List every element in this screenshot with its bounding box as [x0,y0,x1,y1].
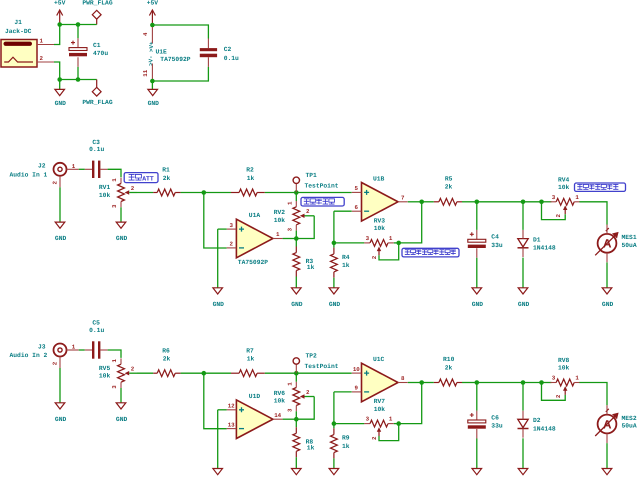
svg-text:2: 2 [555,213,562,217]
op-amp U1D [227,393,283,439]
svg-text:GND: GND [148,100,160,107]
svg-text:RV1: RV1 [99,184,111,191]
connector J1 Jack-DC [1,19,54,67]
ground (D1) [518,288,528,294]
wire D2 branch [522,383,524,411]
wire R2 to TP1 node [265,192,297,194]
potentiometer RV2 10k [274,201,315,231]
wire RV7 wiper return [371,424,399,441]
svg-text:U1C: U1C [373,356,385,363]
junction GND/C1 [76,77,81,82]
svg-text:>V+: >V+ [148,41,155,52]
ground (R8) [292,469,302,475]
svg-text:TestPoint: TestPoint [305,182,339,189]
resistor R8 1k [293,419,315,457]
svg-text:1N4148: 1N4148 [533,425,556,432]
svg-text:1: 1 [389,235,393,242]
svg-text:10k: 10k [99,192,111,199]
wire TP1 node to RV2 pin1 [295,193,297,202]
svg-text:10k: 10k [374,225,386,232]
wire R4 to ground [333,278,335,288]
svg-text:33u: 33u [491,423,503,430]
svg-text:PWR_FLAG: PWR_FLAG [82,99,112,106]
wire U1D output to feedback node [283,418,297,420]
svg-text:2k: 2k [163,175,171,182]
wire U1A output to feedback node [283,238,297,240]
diode D1 1N4148 [518,230,556,257]
wire R5 to meter line [462,201,477,203]
ground (U1A) [213,288,223,294]
potentiometer RV7 10k [364,398,394,432]
svg-text:12: 12 [228,403,235,410]
wire feedback node to RV6 wiper return [296,397,314,420]
svg-text:1: 1 [40,38,44,45]
junction RV8 wiper node [539,380,544,385]
svg-text:U1E: U1E [156,49,168,56]
svg-text:RV8: RV8 [558,357,570,364]
svg-text:0.1u: 0.1u [89,146,104,153]
junction D2 node [521,380,526,385]
svg-text:TA75092P: TA75092P [160,56,190,63]
wire C4 to ground [476,248,478,287]
svg-text:TP2: TP2 [306,353,318,360]
svg-text:11: 11 [142,69,149,76]
resistor R6 2k [153,347,180,376]
wire RV6 pin3 to feedback node [295,411,297,419]
svg-text:9: 9 [355,385,359,392]
svg-text:A: A [603,417,612,431]
svg-text:2: 2 [371,436,378,440]
wire RV7 pin1 to clip level node [394,423,399,425]
resistor R1 2k [153,167,180,196]
resistor R4 1k [331,243,350,278]
junction clip level node [396,421,401,426]
wire RV5 pin3 to ground [120,388,122,403]
wire RV8 wiper return [542,383,566,401]
junction TP1 node [294,190,299,195]
connector J2 Audio In 1 [10,163,79,188]
ground (J1) [55,80,67,108]
svg-text:3: 3 [111,385,118,389]
svg-text:C5: C5 [92,320,100,327]
wire U1B output [408,201,422,203]
resistor R3 1k [293,239,315,277]
svg-text:10k: 10k [99,373,111,380]
svg-text:50uA: 50uA [622,242,637,249]
svg-text:J3: J3 [38,343,46,350]
svg-text:2: 2 [229,241,233,248]
wire to RV8 [542,382,552,384]
svg-text:470u: 470u [93,50,108,57]
wire RV4 pin1 to MES1 [579,202,607,225]
ground (RV1) [116,222,126,228]
capacitor C6 33u branch [476,383,478,421]
svg-text:U1B: U1B [373,175,385,182]
wire inverting node to RV3 pin3 [334,242,364,244]
svg-text:GND: GND [291,301,303,308]
wire node down to U1D inverting input [204,373,227,429]
svg-text:14: 14 [274,412,281,419]
potentiometer RV1 10k [99,178,137,208]
svg-text:1k: 1k [247,175,255,182]
label box 信号ATT (signal attenuator) [124,173,158,183]
svg-text:2: 2 [131,185,135,192]
power symbol +5V (J1 branch) [54,0,66,24]
svg-text:GND: GND [213,301,225,308]
wire output node down to clip level pot [399,383,422,424]
power flag PWR_FLAG (top) [82,0,112,24]
svg-text:5: 5 [355,185,359,192]
svg-text:3: 3 [552,194,556,201]
svg-text:+5V: +5V [54,0,66,7]
wire U1B inverting input loop [334,210,352,212]
svg-text:1: 1 [389,416,393,423]
svg-text:2k: 2k [445,364,453,371]
diode D2 1N4148 [518,411,556,438]
wire D1 to ground [522,258,524,288]
svg-text:GND: GND [55,235,67,242]
potentiometer RV3 10k [364,218,394,252]
potentiometer RV8 10k [550,357,580,391]
test point TP1 [293,172,339,193]
wire R6 to node [181,372,204,374]
svg-text:GND: GND [55,100,67,107]
svg-text:8: 8 [401,375,405,382]
wire U1A non-inverting input to ground [218,228,227,230]
wire J2 pin2 to ground [59,187,61,222]
svg-text:2: 2 [371,255,378,259]
wire RV2 pin3 to feedback node [295,231,297,239]
svg-text:TestPoint: TestPoint [305,363,339,370]
wire output node to R5 [422,201,434,203]
wire RV5 wiper to R6 [137,372,153,374]
op-amp U1C [352,356,408,402]
svg-text:RV7: RV7 [374,398,386,405]
svg-text:3: 3 [229,222,233,229]
svg-text:0.1u: 0.1u [89,327,104,334]
svg-text:3: 3 [286,227,293,231]
wire feedback node to RV2 wiper return [296,216,314,239]
svg-text:R1: R1 [162,167,170,174]
label box メータ電流調整 (meter current adjust) [575,183,626,191]
svg-text:U1A: U1A [249,212,261,219]
wire U1D non-inverting input to ground [218,409,227,411]
wire +5V rail to C2 [152,25,208,39]
ground (R4) [329,288,339,294]
ground (U1D) [213,469,223,475]
ground (MES1) [602,288,612,294]
junction GND/U1E [150,79,155,84]
svg-text:13: 13 [228,421,235,428]
svg-text:J1: J1 [14,19,22,26]
junction +5V/J1 [57,22,62,27]
ground (J2) [55,222,65,228]
svg-text:10k: 10k [558,184,570,191]
svg-text:1N4148: 1N4148 [533,245,556,252]
wire to RV4 [542,201,552,203]
svg-text:GND: GND [329,301,341,308]
junction TP2 node [294,371,299,376]
svg-text:Audio In 2: Audio In 2 [10,352,48,359]
wire J1 pin1 to +5V rail [54,25,60,45]
svg-text:2: 2 [52,181,59,185]
svg-text:GND: GND [116,235,128,242]
svg-text:MES1: MES1 [622,234,637,241]
label box 対称度調整 (symmetry adjust) [301,197,344,206]
svg-text:1: 1 [72,163,76,170]
wire RV1 wiper to R1 [137,192,153,194]
wire R3 to ground [295,277,297,288]
svg-text:GND: GND [116,416,128,423]
svg-text:R7: R7 [246,347,254,354]
wire J3 pin2 to ground [59,368,61,403]
svg-text:RV2: RV2 [274,209,286,216]
wire RV1 pin3 to ground [120,207,122,222]
ground (C4) [472,288,482,294]
svg-text:1k: 1k [307,264,315,271]
svg-text:1: 1 [276,231,280,238]
wire C5 to RV5 [108,350,121,358]
junction input node [202,371,207,376]
svg-text:1: 1 [575,375,579,382]
wire inverting node to RV7 pin3 [334,423,364,425]
svg-text:1k: 1k [307,445,315,452]
svg-text:GND: GND [518,301,530,308]
ground (RV5) [116,403,126,409]
svg-text:1k: 1k [342,443,350,450]
svg-text:4: 4 [142,32,149,36]
wire to D1 node [477,201,523,203]
ground (R9) [329,469,339,475]
svg-text:PWR_FLAG: PWR_FLAG [82,0,112,7]
wire TP2 node to U1C non-inverting input [296,372,351,374]
svg-text:2: 2 [52,361,59,365]
wire node to R7 [204,372,231,374]
svg-text:10k: 10k [374,406,386,413]
junction feedback node [294,417,299,422]
wire RV3 pin1 to clip level node [394,242,399,244]
wire C6 to ground [476,429,478,468]
resistor R7 1k [231,347,265,376]
ground (C6) [472,469,482,475]
svg-text:D1: D1 [533,236,541,243]
svg-text:RV6: RV6 [274,390,286,397]
wire R8 to ground [295,457,297,468]
svg-text:1: 1 [111,358,118,362]
svg-text:ATT: ATT [142,176,154,183]
junction input node [202,190,207,195]
svg-text:33u: 33u [491,242,503,249]
capacitor C6 33u [468,413,503,430]
wire D2 to ground [522,438,524,468]
power symbol +5V (U1E branch) [147,0,159,24]
svg-text:3: 3 [366,416,370,423]
capacitor C5 0.1u [79,320,108,359]
op-amp U1A [227,212,283,266]
wire C2 to GND rail [152,67,208,81]
wire U1C output [408,382,422,384]
svg-text:GND: GND [55,416,67,423]
ammeter MES1 50uA [595,225,637,263]
svg-text:C3: C3 [92,139,100,146]
svg-text:TA75092P: TA75092P [238,259,268,266]
svg-text:1: 1 [72,344,76,351]
svg-text:A: A [603,237,612,251]
svg-text:1k: 1k [342,262,350,269]
svg-text:1: 1 [286,382,293,386]
svg-text:C4: C4 [491,234,499,241]
svg-text:10: 10 [353,366,360,373]
svg-text:1: 1 [111,178,118,182]
ground (MES2) [602,469,612,475]
ground (D2) [518,469,528,475]
svg-text:10k: 10k [274,398,286,405]
ground (J3) [55,403,65,409]
connector J3 Audio In 2 [10,343,79,368]
svg-text:C1: C1 [93,42,101,49]
junction feedback node [294,236,299,241]
ammeter MES2 50uA [595,405,637,443]
wire to D2 node [477,382,523,384]
svg-text:7: 7 [401,194,405,201]
junction output node [419,200,424,205]
wire output node to R10 [422,382,434,384]
svg-text:3: 3 [552,375,556,382]
capacitor C4 33u branch [476,202,478,240]
svg-text:50uA: 50uA [622,423,637,430]
junction output node [419,380,424,385]
svg-text:R4: R4 [342,254,350,261]
wire R10 to meter line [462,382,477,384]
resistor R5 2k [434,175,462,205]
resistor R10 2k [434,356,462,386]
resistor R2 1k [231,167,265,196]
ground (R3) [292,288,302,294]
wire TP2 node to RV6 pin1 [295,373,297,382]
svg-text:2: 2 [40,55,44,62]
svg-text:MES2: MES2 [622,415,637,422]
svg-text:TP1: TP1 [306,172,318,179]
op-amp U1B [352,175,408,221]
svg-text:GND: GND [602,301,614,308]
potentiometer RV5 10k [99,358,137,388]
svg-text:J2: J2 [38,163,46,170]
junction RV4 wiper node [539,200,544,205]
svg-text:3: 3 [286,408,293,412]
label box クリップレベル調整 (clip level adjust) [402,248,459,257]
junction +5V/C1 [76,22,81,27]
svg-text:R10: R10 [443,356,455,363]
svg-text:2k: 2k [445,184,453,191]
svg-text:RV4: RV4 [558,176,570,183]
capacitor C4 33u [468,232,503,249]
svg-text:U1D: U1D [249,393,261,400]
wire C3 to RV1 [108,169,121,177]
junction clip level node [396,241,401,246]
resistor R9 1k [331,424,350,459]
svg-text:10k: 10k [274,217,286,224]
wire node down to U1A inverting input [204,193,227,249]
capacitor C2 0.1u [200,39,239,67]
wire MES1 to ground [606,262,608,287]
junction GND/J1 [57,77,62,82]
svg-text:6: 6 [355,204,359,211]
junction C4 node [475,200,480,205]
svg-text:Jack-DC: Jack-DC [5,28,32,35]
svg-text:Audio In 1: Audio In 1 [10,171,48,178]
svg-text:1: 1 [575,194,579,201]
wire U1C inverting input loop [334,391,352,393]
svg-text:10k: 10k [558,365,570,372]
wire MES2 to ground [606,443,608,468]
svg-text:R9: R9 [342,435,350,442]
svg-text:0.1u: 0.1u [224,55,239,62]
svg-text:2k: 2k [163,356,171,363]
test point TP2 [293,353,339,374]
potentiometer RV4 10k [550,176,580,210]
wire to RV8 node [523,382,542,384]
junction +5V/U1E [150,23,155,28]
svg-text:R2: R2 [246,167,254,174]
svg-text:R5: R5 [445,175,453,182]
junction D1 node [521,200,526,205]
svg-text:D2: D2 [533,417,541,424]
junction inverting node [332,421,337,426]
capacitor C1 470u [69,41,108,58]
svg-text:2: 2 [131,366,135,373]
potentiometer RV6 10k [274,382,315,412]
svg-text:C6: C6 [491,414,499,421]
capacitor C3 0.1u [79,139,108,178]
svg-text:>V-: >V- [147,55,154,65]
svg-text:+5V: +5V [147,0,159,7]
svg-text:2: 2 [306,389,310,396]
svg-text:GND: GND [472,301,484,308]
wire D1 branch [522,202,524,230]
svg-text:1: 1 [286,201,293,205]
ground (U1E) [148,81,160,107]
wire J1 pin2 to ground rail [54,62,60,80]
junction inverting node [332,241,337,246]
svg-text:C2: C2 [224,46,232,53]
svg-text:3: 3 [366,235,370,242]
wire output node down to clip level pot [399,202,422,243]
wire top rail +5V [60,24,97,26]
wire RV3 wiper return [371,243,399,260]
wire R7 to TP2 node [265,372,297,374]
wire C1 to ground rail [77,57,79,79]
svg-text:RV3: RV3 [374,218,386,225]
wire RV8 pin1 to MES2 [579,383,607,406]
svg-text:R6: R6 [162,347,170,354]
wire RV4 wiper return [542,202,566,220]
wire to RV4 node [523,201,542,203]
svg-text:2: 2 [555,394,562,398]
op-amp power unit U1E TA75092P [142,27,191,81]
capacitor C1 470u [77,25,79,48]
junction C6 node [475,380,480,385]
wire R1 to node [181,192,204,194]
wire R9 to ground [333,458,335,468]
wire node to R2 [204,192,231,194]
power flag PWR_FLAG (bottom) [82,80,112,107]
svg-text:3: 3 [111,204,118,208]
svg-text:RV5: RV5 [99,365,111,372]
svg-text:1k: 1k [247,356,255,363]
wire TP1 node to U1B non-inverting input [296,192,351,194]
svg-text:2: 2 [306,208,310,215]
wire bottom rail GND [60,79,97,81]
